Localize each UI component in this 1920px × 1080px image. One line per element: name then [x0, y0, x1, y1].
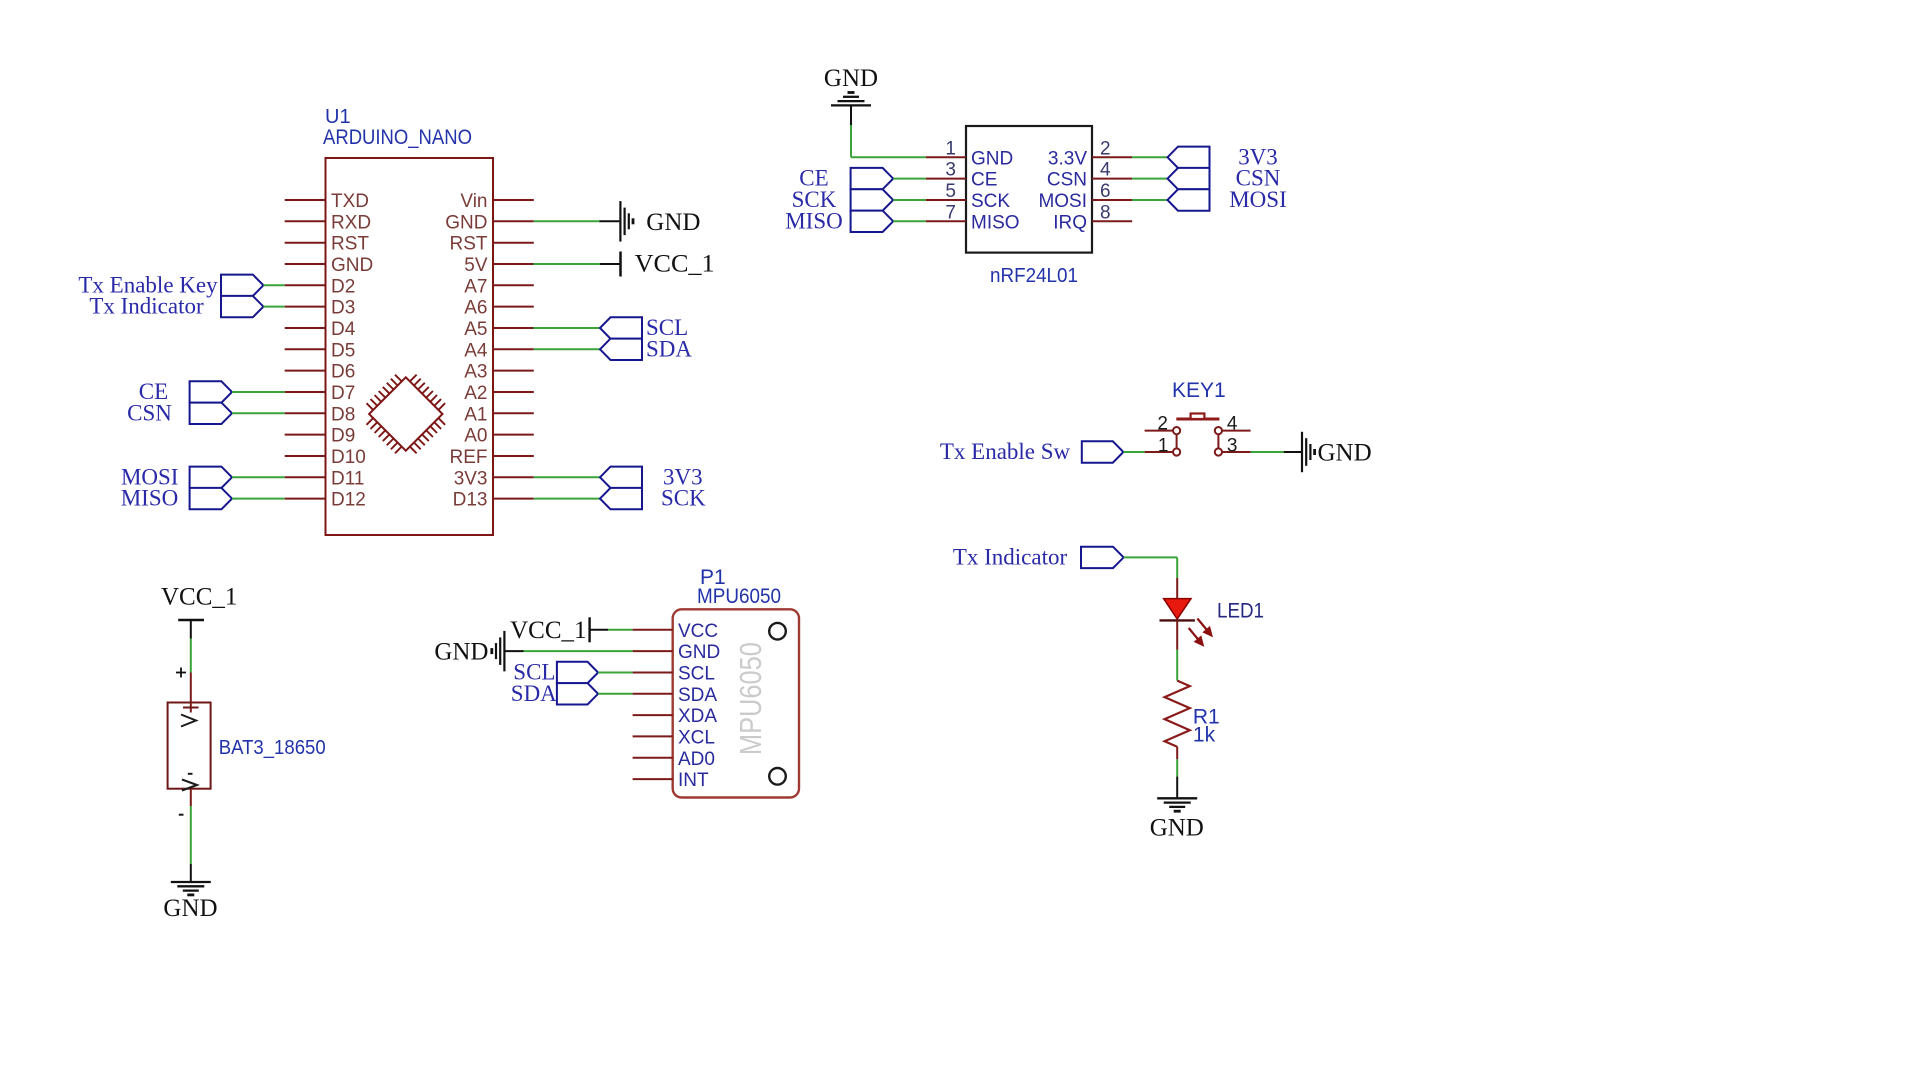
svg-text:4: 4: [1100, 160, 1111, 181]
svg-text:D2: D2: [331, 276, 355, 297]
svg-text:D4: D4: [331, 319, 356, 340]
svg-text:1: 1: [945, 138, 956, 159]
svg-text:A3: A3: [464, 362, 487, 383]
svg-text:CSN: CSN: [127, 400, 172, 425]
svg-text:A0: A0: [464, 426, 487, 447]
svg-text:D8: D8: [331, 404, 355, 425]
svg-text:D10: D10: [331, 447, 366, 468]
svg-text:VCC_1: VCC_1: [510, 617, 586, 644]
svg-text:U1: U1: [325, 106, 351, 128]
svg-text:XDA: XDA: [678, 706, 717, 727]
svg-text:D13: D13: [453, 490, 488, 511]
svg-text:D6: D6: [331, 362, 355, 383]
svg-text:Vin: Vin: [460, 191, 487, 212]
svg-text:MPU6050: MPU6050: [697, 585, 781, 608]
svg-text:1k: 1k: [1193, 724, 1216, 747]
svg-text:MISO: MISO: [785, 208, 843, 233]
svg-text:SCK: SCK: [971, 191, 1010, 212]
svg-text:3: 3: [945, 160, 956, 181]
svg-text:TXD: TXD: [331, 191, 369, 212]
svg-text:6: 6: [1100, 181, 1111, 202]
svg-text:A6: A6: [464, 298, 487, 319]
svg-text:INT: INT: [678, 770, 709, 791]
svg-text:MISO: MISO: [971, 212, 1020, 233]
svg-text:Tx Enable Sw: Tx Enable Sw: [940, 439, 1071, 464]
svg-text:4: 4: [1227, 414, 1238, 435]
svg-text:3V3: 3V3: [454, 468, 488, 489]
svg-text:VCC_1: VCC_1: [161, 584, 237, 611]
svg-text:MISO: MISO: [121, 486, 179, 511]
svg-text:2: 2: [1157, 414, 1168, 435]
svg-text:GND: GND: [646, 209, 700, 236]
svg-text:GND: GND: [445, 212, 487, 233]
svg-text:GND: GND: [331, 255, 373, 276]
svg-text:KEY1: KEY1: [1172, 379, 1226, 402]
svg-text:GND: GND: [434, 638, 488, 665]
svg-text:D12: D12: [331, 490, 366, 511]
svg-text:SDA: SDA: [511, 681, 557, 706]
svg-text:REF: REF: [450, 447, 488, 468]
svg-text:D3: D3: [331, 298, 355, 319]
svg-text:MOSI: MOSI: [1229, 187, 1287, 212]
svg-text:SCK: SCK: [661, 486, 706, 511]
svg-text:GND: GND: [1150, 815, 1204, 842]
svg-text:SDA: SDA: [646, 336, 692, 361]
svg-text:D7: D7: [331, 383, 355, 404]
svg-text:XCL: XCL: [678, 727, 715, 748]
svg-text:5: 5: [945, 181, 956, 202]
svg-text:A2: A2: [464, 383, 487, 404]
svg-text:ARDUINO_NANO: ARDUINO_NANO: [323, 126, 472, 149]
svg-text:nRF24L01: nRF24L01: [990, 265, 1078, 287]
svg-text:GND: GND: [163, 895, 217, 922]
svg-text:SDA: SDA: [678, 685, 717, 706]
svg-text:1: 1: [1158, 435, 1169, 456]
svg-text:GND: GND: [971, 148, 1013, 169]
svg-text:GND: GND: [678, 642, 720, 663]
svg-text:VCC_1: VCC_1: [635, 251, 715, 278]
svg-text:MOSI: MOSI: [1038, 191, 1087, 212]
svg-text:AD0: AD0: [678, 749, 715, 770]
svg-text:5V: 5V: [464, 255, 488, 276]
svg-text:RXD: RXD: [331, 212, 371, 233]
svg-text:A1: A1: [464, 404, 487, 425]
svg-text:RST: RST: [331, 234, 369, 255]
svg-text:Tx Indicator: Tx Indicator: [953, 545, 1068, 570]
svg-text:VCC: VCC: [678, 621, 718, 642]
svg-text:CSN: CSN: [1047, 170, 1087, 191]
svg-text:CE: CE: [971, 170, 997, 191]
svg-text:IRQ: IRQ: [1053, 212, 1087, 233]
svg-text:SCL: SCL: [678, 664, 715, 685]
svg-text:D5: D5: [331, 340, 355, 361]
svg-text:D11: D11: [331, 468, 364, 489]
svg-text:A7: A7: [464, 276, 487, 297]
svg-text:BAT3_18650: BAT3_18650: [219, 737, 326, 759]
svg-text:LED1: LED1: [1217, 600, 1264, 623]
svg-text:3: 3: [1227, 435, 1238, 456]
svg-text:Tx Indicator: Tx Indicator: [89, 294, 204, 319]
svg-text:A4: A4: [464, 340, 488, 361]
svg-text:2: 2: [1100, 138, 1111, 159]
svg-text:A5: A5: [464, 319, 487, 340]
svg-text:7: 7: [945, 202, 956, 223]
svg-text:GND: GND: [824, 65, 878, 92]
svg-text:MPU6050: MPU6050: [733, 642, 768, 755]
svg-text:D9: D9: [331, 426, 355, 447]
svg-text:GND: GND: [1318, 440, 1372, 467]
svg-text:RST: RST: [450, 234, 488, 255]
svg-text:3.3V: 3.3V: [1048, 148, 1087, 169]
svg-text:8: 8: [1100, 202, 1111, 223]
